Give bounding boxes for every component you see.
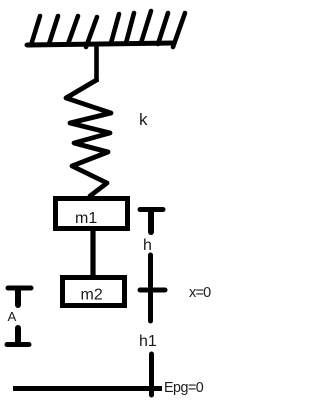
ceiling hatch 2 — [49, 16, 58, 44]
ceiling hatch 6 — [126, 13, 134, 43]
svg-text:k: k — [139, 110, 148, 129]
dimension line lower segment — [149, 354, 154, 395]
ceiling line — [27, 43, 174, 45]
svg-text:x=0: x=0 — [189, 285, 211, 301]
mass m1 box — [56, 199, 128, 229]
connector rod m1 to m2 — [90, 231, 95, 276]
h dimension upper stub — [148, 212, 154, 232]
dimension line mid segment — [148, 255, 153, 321]
x=0 cross tick — [140, 288, 165, 293]
svg-text:A: A — [8, 309, 17, 324]
svg-text:Epg=0: Epg=0 — [164, 380, 204, 396]
ceiling hatch 3 — [68, 16, 78, 44]
A dimension bottom tick — [7, 342, 29, 347]
svg-text:m2: m2 — [81, 287, 103, 304]
mass m2 box — [63, 278, 125, 306]
h dimension top tick — [140, 207, 163, 212]
ceiling hatch 4 — [86, 17, 97, 47]
A dimension top tick — [8, 286, 31, 291]
spring k zigzag — [66, 80, 111, 196]
A dimension bottom stub — [15, 328, 21, 343]
A dimension top stub — [15, 290, 21, 305]
ceiling hatch 9 — [173, 13, 185, 47]
svg-text:m1: m1 — [75, 210, 97, 227]
hanger wire from ceiling to spring — [94, 45, 99, 82]
svg-text:h: h — [143, 237, 152, 254]
ceiling hatch 7 — [141, 11, 151, 43]
ground reference line — [13, 386, 162, 391]
ceiling hatch 8 — [158, 13, 168, 44]
svg-text:h1: h1 — [139, 333, 157, 350]
ceiling hatch 5 — [111, 14, 119, 43]
ceiling hatch 1 — [31, 16, 40, 45]
